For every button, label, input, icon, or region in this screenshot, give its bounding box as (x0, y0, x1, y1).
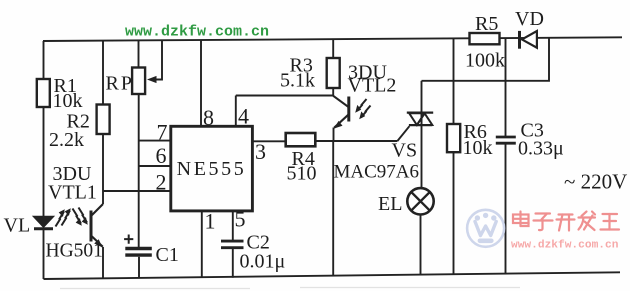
svg-text:2: 2 (156, 170, 167, 195)
potentiometer RP (132, 68, 145, 95)
svg-text:4: 4 (238, 104, 249, 129)
light arrows into VTL2 (355, 99, 370, 119)
wire R2 bottom to VTL1 collector (102, 134, 104, 204)
wire C2 bottom (232, 249, 234, 278)
svg-text:VL: VL (4, 215, 31, 237)
wire pin 5 (232, 211, 234, 240)
op-amp U1 NE555 box (171, 126, 253, 211)
wire C3 top (505, 38, 507, 136)
wire pin 6 (139, 165, 172, 167)
svg-text:10k: 10k (53, 90, 83, 112)
wire R3 bottom (332, 88, 334, 96)
svg-text:EL: EL (378, 193, 402, 215)
svg-text:VTL1: VTL1 (48, 182, 97, 204)
wire R4 to gate corner (315, 140, 397, 142)
capacitor C1 polarized (124, 235, 152, 256)
resistor R3 (327, 58, 340, 88)
svg-text:MAC97A6: MAC97A6 (334, 162, 420, 183)
resistor R4 (286, 133, 316, 146)
wire pin 3 (252, 140, 286, 142)
wire C3 bottom (505, 144, 507, 274)
phototransistor VTL1 (91, 204, 103, 248)
wire R3 top (332, 39, 334, 58)
svg-text:VD: VD (515, 8, 544, 30)
LED VL emission light arrows (56, 208, 71, 226)
resistor R2 (97, 105, 110, 135)
resistor R1 (37, 79, 50, 107)
wire left rail middle (43, 107, 45, 217)
svg-text:RP: RP (106, 73, 134, 95)
watermark text CJK fa (579, 212, 596, 231)
svg-text:C1: C1 (156, 244, 179, 266)
resistor R5 (470, 33, 500, 44)
diode VD (520, 31, 537, 49)
svg-text:1: 1 (205, 209, 216, 234)
phototransistor VTL2 (333, 96, 349, 129)
resistor R6 (447, 124, 460, 152)
triac VS (407, 81, 433, 189)
svg-text:7: 7 (157, 120, 168, 145)
svg-text:10k: 10k (463, 137, 493, 159)
light arrows into VTL1 (73, 208, 88, 226)
svg-text:6: 6 (156, 143, 167, 168)
svg-text:R5: R5 (475, 13, 498, 35)
svg-text:2.2k: 2.2k (49, 129, 84, 151)
svg-text:www.dzkfw.com.cn: www.dzkfw.com.cn (511, 240, 619, 252)
svg-text:VTL2: VTL2 (348, 75, 397, 97)
wire pin 8 (200, 40, 202, 127)
wire RP bottom to pins 7 6 and C1 (138, 94, 140, 248)
RP wiper arrow (147, 41, 162, 84)
svg-text:www.dzkfw.com.cn: www.dzkfw.com.cn (125, 24, 269, 41)
svg-text:0.01μ: 0.01μ (240, 251, 286, 273)
wire VTL1 emitter to bottom rail (102, 247, 104, 279)
svg-text:5: 5 (235, 207, 246, 232)
watermark text CJK wang (601, 214, 620, 230)
svg-text:3: 3 (255, 139, 266, 164)
watermark text CJK zi (534, 214, 553, 231)
svg-text:NE555: NE555 (177, 158, 247, 180)
wire pin 2 (103, 190, 171, 192)
wire pin 4 vertical (235, 96, 237, 127)
wire EL bottom (420, 215, 422, 276)
wire R6 top (453, 39, 455, 124)
potentiometer RP wire top (138, 41, 140, 68)
svg-text:100k: 100k (465, 50, 505, 72)
wire left rail lower (43, 230, 45, 279)
wire top supply rail (43, 37, 622, 41)
svg-text:VS: VS (392, 140, 418, 162)
wire VTL2 emitter down (333, 128, 335, 142)
wire triac top to AC line (422, 38, 550, 81)
svg-text:510: 510 (287, 163, 317, 185)
watermark text CJK kai (557, 215, 575, 231)
lamp EL (407, 188, 433, 214)
watermark text CJK dian (513, 212, 529, 227)
wire left rail upper (43, 41, 45, 80)
svg-text:8: 8 (203, 105, 214, 130)
svg-text:5.1k: 5.1k (280, 70, 315, 92)
wire pin 7 (139, 140, 172, 142)
svg-text:~ 220V: ~ 220V (564, 170, 627, 194)
wire bottom ground rail (44, 272, 621, 279)
wire pin 4 to R3 node (236, 95, 333, 97)
wire R6 bottom (453, 152, 455, 275)
wire pin 1 (201, 211, 203, 278)
svg-text:HG501: HG501 (46, 241, 103, 262)
watermark logo circle W (467, 210, 504, 247)
capacitor C3 (496, 137, 516, 143)
capacitor C2 (221, 241, 244, 248)
wire triac gate diagonal (397, 126, 409, 141)
LED VL (34, 217, 54, 229)
wire node A to bottom rail (332, 141, 334, 277)
wire R2 branch top (102, 41, 104, 105)
svg-text:0.33μ: 0.33μ (518, 138, 564, 160)
wire C1 bottom (138, 257, 140, 279)
